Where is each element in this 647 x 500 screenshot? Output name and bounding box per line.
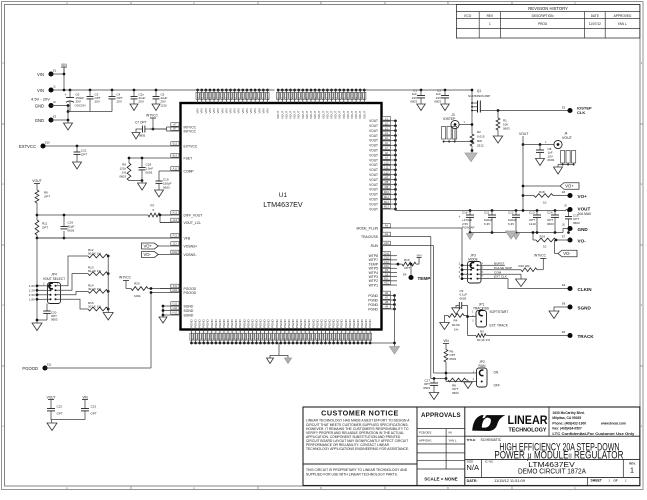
svg-text:INTVCC: INTVCC [146,114,159,118]
svg-text:PGND: PGND [368,307,378,311]
svg-text:M10: M10 [384,190,390,194]
svg-text:TRACK: TRACK [578,334,595,339]
svg-text:0603: 0603 [423,386,430,390]
svg-text:R10 20k: R10 20k [519,264,531,268]
svg-text:A: A [66,486,68,490]
svg-text:C23: C23 [91,404,97,408]
svg-text:VIN: VIN [37,72,44,77]
svg-text:A: A [193,486,195,490]
svg-text:F11: F11 [173,284,178,288]
svg-text:L12: L12 [384,170,389,174]
svg-text:APPROVED: APPROVED [614,14,632,18]
svg-text:DIFF_VOUT: DIFF_VOUT [184,213,203,217]
svg-text:E5: E5 [562,330,566,334]
svg-text:VOUT: VOUT [369,149,378,153]
svg-text:A11: A11 [173,167,178,171]
svg-text:TEMP: TEMP [418,276,431,281]
svg-text:PGND: PGND [368,303,378,307]
svg-text:L11: L11 [384,166,389,170]
svg-text:0603: 0603 [51,318,58,322]
svg-text:E11: E11 [47,363,52,367]
svg-text:C8: C8 [385,272,389,276]
svg-text:B: B [447,1,449,5]
svg-text:J3: J3 [451,113,455,117]
svg-text:VOUT: VOUT [369,153,378,157]
svg-text:SCALE = NONE: SCALE = NONE [424,476,457,481]
svg-text:10: 10 [543,200,547,204]
svg-text:VIN: VIN [82,395,88,399]
svg-text:C22: C22 [57,404,63,408]
svg-text:CLK: CLK [577,110,585,115]
svg-text:M12: M12 [384,200,390,204]
svg-text:B12: B12 [173,154,178,158]
svg-text:A: A [193,1,195,5]
svg-text:1210: 1210 [529,222,536,226]
svg-text:A10: A10 [384,241,389,245]
svg-text:VOUT: VOUT [369,144,378,148]
svg-text:LINEAR: LINEAR [508,413,548,427]
svg-text:0603: 0603 [460,296,467,300]
svg-text:10: 10 [543,245,547,249]
svg-text:0603: 0603 [410,100,417,104]
svg-text:LTC Confidential-For Customer: LTC Confidential-For Customer Use Only [552,432,634,436]
svg-text:1: 1 [489,22,491,26]
svg-text:90.9K 1%: 90.9K 1% [88,251,101,255]
svg-text:M9: M9 [385,185,389,189]
svg-text:DATE: DATE [591,14,599,18]
svg-text:L12: L12 [173,218,178,222]
svg-text:6.3V: 6.3V [508,222,514,226]
svg-text:OPT: OPT [57,411,63,415]
svg-text:1630 McCarthy Blvd.: 1630 McCarthy Blvd. [552,411,584,415]
svg-text:PGND: PGND [368,298,378,302]
svg-text:VO+: VO+ [565,184,574,189]
svg-text:REVISION HISTORY: REVISION HISTORY [528,6,568,11]
svg-text:PGOOD: PGOOD [184,291,197,295]
svg-text:25V: 25V [117,100,122,104]
svg-text:OPT: OPT [44,194,50,198]
svg-text:SGND: SGND [184,304,194,308]
svg-text:JP4: JP4 [51,273,57,277]
svg-text:APP ENG.: APP ENG. [419,438,432,442]
svg-text:B11: B11 [384,277,389,281]
svg-text:VOUT: VOUT [47,395,56,399]
svg-text:11/15/12 11:51:09: 11/15/12 11:51:09 [494,478,525,483]
svg-text:COM: COM [494,270,502,274]
svg-text:1%: 1% [454,327,459,331]
svg-text:G01: G01 [172,288,177,292]
svg-text:IC NO.: IC NO. [485,460,494,464]
svg-text:VOSNS-: VOSNS- [184,253,197,257]
svg-text:SOFTSTART: SOFTSTART [490,310,509,314]
svg-text:VOUT SELECT: VOUT SELECT [43,277,65,281]
svg-text:E6: E6 [562,190,566,194]
svg-text:E1: E1 [53,69,57,73]
svg-text:2512: 2512 [477,144,484,148]
svg-text:30.1K 1%: 30.1K 1% [88,304,101,308]
svg-text:C7 OPT: C7 OPT [135,121,147,125]
svg-text:VOUT: VOUT [369,178,378,182]
svg-text:100k: 100k [134,294,141,298]
svg-text:H11: H11 [173,306,178,310]
svg-text:B: B [320,1,322,5]
svg-text:R7: R7 [151,203,155,207]
svg-text:GND: GND [578,227,589,232]
svg-text:60.4K 1%: 60.4K 1% [477,338,490,342]
svg-text:M11: M11 [384,195,389,199]
svg-text:0603: 0603 [434,100,441,104]
svg-text:VOUT: VOUT [369,124,378,128]
svg-text:0603: 0603 [119,174,126,178]
svg-text:PCB DES.: PCB DES. [419,431,432,435]
svg-text:VOUT: VOUT [369,193,378,197]
svg-text:VOSNS+: VOSNS+ [184,244,198,248]
svg-text:R19: R19 [540,234,546,238]
svg-text:N/A: N/A [466,463,480,472]
svg-text:0603: 0603 [547,222,554,226]
svg-text:FSET: FSET [184,156,193,160]
svg-text:VOUT: VOUT [32,179,41,183]
svg-text:E4: E4 [403,272,407,276]
svg-text:C16: C16 [462,211,468,215]
svg-text:VOUT: VOUT [362,110,366,119]
svg-text:PGND: PGND [368,294,378,298]
svg-text:A12: A12 [384,281,389,285]
svg-text:TRACK/SS: TRACK/SS [361,235,379,239]
svg-text:R4: R4 [454,319,458,323]
svg-text:ON: ON [494,370,499,374]
svg-text:0805: 0805 [139,134,146,138]
svg-text:VOUT: VOUT [369,134,378,138]
svg-text:EXTVCC: EXTVCC [19,144,36,149]
svg-text:A8: A8 [385,224,389,228]
svg-text:F12: F12 [173,234,178,238]
svg-text:SGND: SGND [578,305,592,310]
svg-text:H12: H12 [173,311,178,315]
svg-text:R16: R16 [404,258,410,262]
svg-text:EXT CLK: EXT CLK [494,275,508,279]
svg-text:R18: R18 [539,190,545,194]
svg-text:RUN: RUN [371,244,379,248]
svg-text:Phone: (408)432-1900: Phone: (408)432-1900 [552,421,586,425]
svg-text:0603: 0603 [68,228,75,232]
svg-text:40.2K 1%: 40.2K 1% [88,287,101,291]
svg-text:E9: E9 [562,283,566,287]
svg-text:0603: 0603 [163,185,170,189]
svg-text:GND: GND [35,104,44,109]
svg-text:0.015: 0.015 [477,135,485,139]
svg-text:R2: R2 [477,130,481,134]
svg-text:OF: OF [614,479,618,483]
svg-text:U1: U1 [279,192,288,199]
svg-text:CLKIN: CLKIN [578,287,593,292]
svg-text:CUSTOMER NOTICE: CUSTOMER NOTICE [321,408,399,417]
svg-text:DESCRIPTION: DESCRIPTION [532,14,554,18]
svg-text:Milpitas, CA 95035: Milpitas, CA 95035 [552,416,581,420]
svg-text:ECO: ECO [464,14,471,18]
svg-text:SGND: SGND [184,309,194,313]
svg-text:DEMO CIRCUIT 1872A: DEMO CIRCUIT 1872A [518,467,587,476]
svg-text:VOUT: VOUT [369,173,378,177]
svg-text:VOUT: VOUT [369,139,378,143]
svg-text:VOUT: VOUT [562,136,573,140]
svg-text:E3: E3 [53,115,57,119]
svg-text:VOUT: VOUT [369,207,378,211]
svg-text:25V: 25V [95,100,100,104]
svg-text:C14: C14 [547,211,553,215]
svg-text:A: A [66,1,68,5]
svg-text:INTVCC: INTVCC [119,276,132,280]
svg-text:0603: 0603 [452,391,459,395]
svg-text:1210: 1210 [161,103,168,107]
svg-text:OFF: OFF [494,384,500,388]
svg-text:J4: J4 [564,131,568,135]
svg-text:1.8V: 1.8V [29,298,35,302]
svg-text:REV: REV [487,14,494,18]
svg-text:OPT: OPT [42,225,48,229]
svg-text:H7: H7 [385,296,389,300]
svg-text:C11: C11 [484,211,490,215]
svg-text:SUPPLIED FOR USE WITH LINEAR T: SUPPLIED FOR USE WITH LINEAR TECHNOLOGY … [306,472,398,476]
svg-text:VOUT: VOUT [519,132,528,136]
svg-text:C12: C12 [508,211,514,215]
svg-text:VOUT: VOUT [369,158,378,162]
svg-text:C13: C13 [529,211,535,215]
svg-text:LTM4637EV: LTM4637EV [263,200,303,209]
svg-text:VO+: VO+ [578,194,588,199]
svg-text:C10: C10 [384,256,389,260]
svg-text:VFB: VFB [184,236,191,240]
svg-text:VOUT: VOUT [369,183,378,187]
svg-text:BURST: BURST [494,261,505,265]
svg-text:INTVCC: INTVCC [184,129,197,133]
svg-text:E10: E10 [45,141,50,145]
svg-text:M8: M8 [385,180,389,184]
svg-text:APPROVALS: APPROVALS [421,412,461,419]
svg-text:G11: G11 [173,302,178,306]
svg-text:YAN L.: YAN L. [449,438,458,442]
svg-text:THIS CIRCUIT IS PROPRIETARY TO: THIS CIRCUIT IS PROPRIETARY TO LINEAR TE… [306,468,408,472]
svg-text:SGND: SGND [184,313,194,317]
svg-text:R3: R3 [480,330,484,334]
svg-text:1.0V: 1.0V [29,284,35,288]
svg-text:0603: 0603 [503,126,510,130]
svg-text:A7: A7 [173,123,177,127]
svg-text:20A MAX: 20A MAX [578,212,593,216]
svg-text:+: + [64,93,66,97]
svg-text:E8: E8 [562,302,566,306]
svg-text:H9: H9 [385,305,389,309]
svg-text:B: B [320,486,322,490]
svg-text:90.9K: 90.9K [452,323,460,327]
svg-text:INTVCC: INTVCC [534,253,547,257]
svg-text:TECHNOLOGY: TECHNOLOGY [509,428,547,434]
svg-text:11/07/12: 11/07/12 [589,22,601,26]
svg-text:C: C [574,486,576,490]
svg-text:0603: 0603 [450,357,457,361]
svg-text:0603: 0603 [146,170,153,174]
svg-text:www.linear.com: www.linear.com [600,421,626,425]
svg-text:POSCAP: POSCAP [462,226,475,230]
svg-text:E2: E2 [562,106,566,110]
svg-text:OPT: OPT [91,411,97,415]
svg-text:PULSE SKIP: PULSE SKIP [494,266,512,270]
svg-text:L10: L10 [384,161,389,165]
svg-text:Fax: (408)434-0507: Fax: (408)434-0507 [552,427,581,431]
svg-text:VOUT_LCL: VOUT_LCL [184,221,202,225]
svg-text:1.2V: 1.2V [29,289,35,293]
svg-text:SHEET: SHEET [591,479,603,483]
svg-text:1: 1 [630,465,634,474]
svg-text:OPT: OPT [81,153,87,157]
svg-text:RUN: RUN [479,364,487,368]
svg-text:SUC50N03-09P: SUC50N03-09P [468,94,490,98]
svg-text:EXT. TRACK: EXT. TRACK [490,323,509,327]
svg-text:4.5V - 20V: 4.5V - 20V [31,97,50,102]
svg-text:DATE:: DATE: [467,479,478,483]
svg-text:VIN: VIN [265,108,269,113]
svg-text:E12: E12 [173,142,178,146]
svg-text:0603: 0603 [548,158,555,162]
svg-text:R20: R20 [134,281,140,285]
svg-text:VOUT: VOUT [369,188,378,192]
svg-text:PGOOD: PGOOD [22,366,38,371]
svg-text:VOUT: VOUT [369,198,378,202]
svg-text:EXTVCC: EXTVCC [184,144,198,148]
svg-text:1.5V: 1.5V [29,293,35,297]
svg-text:VOUT: VOUT [369,168,378,172]
svg-text:VIN: VIN [37,88,44,93]
svg-text:H8: H8 [385,300,389,304]
svg-text:VIN: VIN [443,339,449,343]
svg-text:OSCON: OSCON [75,103,86,107]
svg-text:OPT: OPT [404,266,410,270]
svg-text:VO-: VO- [578,238,587,243]
svg-text:MODE: MODE [468,258,478,262]
svg-text:MODE_PLLIN: MODE_PLLIN [357,226,379,230]
svg-text:H6: H6 [385,291,389,295]
svg-text:C11: C11 [384,264,389,268]
svg-text:TECHNOLOGY APPLICATIONS ENGINE: TECHNOLOGY APPLICATIONS ENGINEERING FOR … [306,447,409,451]
svg-text:VIN: VIN [416,253,421,257]
svg-text:VO-: VO- [563,251,571,256]
svg-text:VOUT: VOUT [369,163,378,167]
svg-text:YAN L.: YAN L. [618,22,628,26]
svg-text:TITLE:: TITLE: [467,438,477,442]
svg-text:Q1: Q1 [477,89,481,93]
svg-text:J12: J12 [173,242,178,246]
svg-text:VO-: VO- [144,252,152,257]
svg-text:VOUT: VOUT [369,119,378,123]
svg-text:M12: M12 [172,250,178,254]
svg-text:B: B [447,486,449,490]
svg-text:VOUT: VOUT [369,202,378,206]
svg-text:K12: K12 [173,211,178,215]
svg-text:0603: 0603 [573,221,580,225]
svg-text:VOUT: VOUT [369,129,378,133]
svg-text:PROD: PROD [538,22,548,26]
svg-text:+: + [459,215,461,219]
svg-text:M7: M7 [385,175,389,179]
svg-text:RW: RW [477,139,482,143]
svg-text:VIN: VIN [61,63,67,67]
svg-text:E7: E7 [562,235,566,239]
svg-text:25V: 25V [139,100,144,104]
svg-text:A9: A9 [385,232,389,236]
svg-text:B7: B7 [173,127,177,131]
svg-text:M13: M13 [384,205,390,209]
svg-text:6.3V: 6.3V [484,222,490,226]
svg-text:C9: C9 [385,268,389,272]
svg-text:GND: GND [35,118,44,123]
svg-text:MI: MI [449,431,452,435]
svg-text:COMP: COMP [184,169,195,173]
svg-text:C12: C12 [384,260,389,264]
svg-text:PGND: PGND [368,318,372,328]
svg-text:WTP1: WTP1 [369,283,379,287]
svg-text:60.4K 1%: 60.4K 1% [88,269,101,273]
svg-text:VOUT: VOUT [578,206,591,211]
svg-text:VO+: VO+ [144,244,153,249]
svg-text:CH2: CH2 [384,251,390,255]
